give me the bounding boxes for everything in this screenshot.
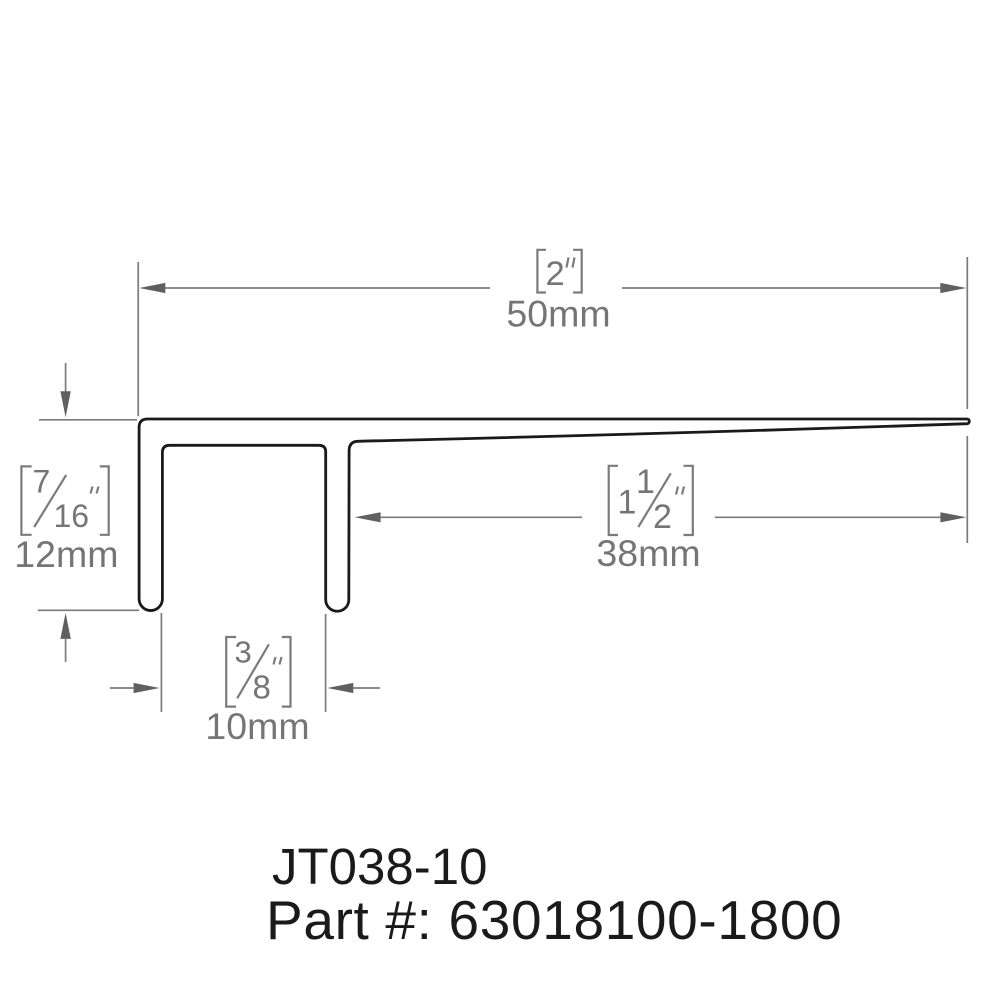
arrow 12mm up [60, 613, 70, 662]
arrowhead 50mm left [139, 283, 165, 293]
arrowhead 50mm right [940, 283, 966, 293]
svg-text:Part #: 63018100-1800: Part #: 63018100-1800 [266, 889, 842, 951]
svg-text:JT038-10: JT038-10 [272, 838, 487, 895]
svg-text:16: 16 [54, 498, 90, 534]
extension line right lower (38mm dim) [966, 436, 968, 543]
extension line left (50mm dim) [137, 262, 139, 416]
svg-text:50mm: 50mm [506, 292, 610, 334]
label [3/8"] [226, 634, 290, 706]
svg-text:8: 8 [253, 668, 271, 705]
extension line bottom (12mm dim) [38, 609, 139, 611]
dimension line 38mm right segment [715, 516, 941, 518]
extension line right upper (50mm dim) [966, 257, 968, 409]
dimension line 50mm right segment [622, 287, 941, 289]
arrowhead 38mm right [940, 512, 966, 522]
arrow 10mm right [327, 683, 380, 693]
label [1 1/2"] [609, 463, 693, 536]
arrowhead 38mm left [355, 512, 381, 522]
svg-text:10mm: 10mm [205, 705, 309, 747]
svg-text:2: 2 [653, 498, 672, 536]
arrow 12mm down [60, 363, 70, 417]
svg-text:38mm: 38mm [596, 532, 700, 574]
extension line top (12mm dim) [39, 419, 137, 421]
svg-text:12mm: 12mm [14, 533, 118, 575]
profile outline (J-trim cross-section) [139, 419, 969, 611]
svg-text:7: 7 [33, 463, 51, 499]
svg-text:1: 1 [636, 463, 655, 501]
extension line right (10mm dim) [325, 614, 327, 712]
label [7/16"] [21, 463, 108, 535]
extension line left (10mm dim) [160, 613, 162, 712]
svg-text:2: 2 [546, 255, 565, 293]
dimension line 50mm left segment [165, 287, 491, 289]
label [2"] [537, 250, 581, 293]
dimension line 38mm left segment [381, 516, 582, 518]
svg-text:1: 1 [618, 484, 637, 522]
arrow 10mm left [110, 683, 160, 693]
svg-text:3: 3 [235, 634, 252, 669]
